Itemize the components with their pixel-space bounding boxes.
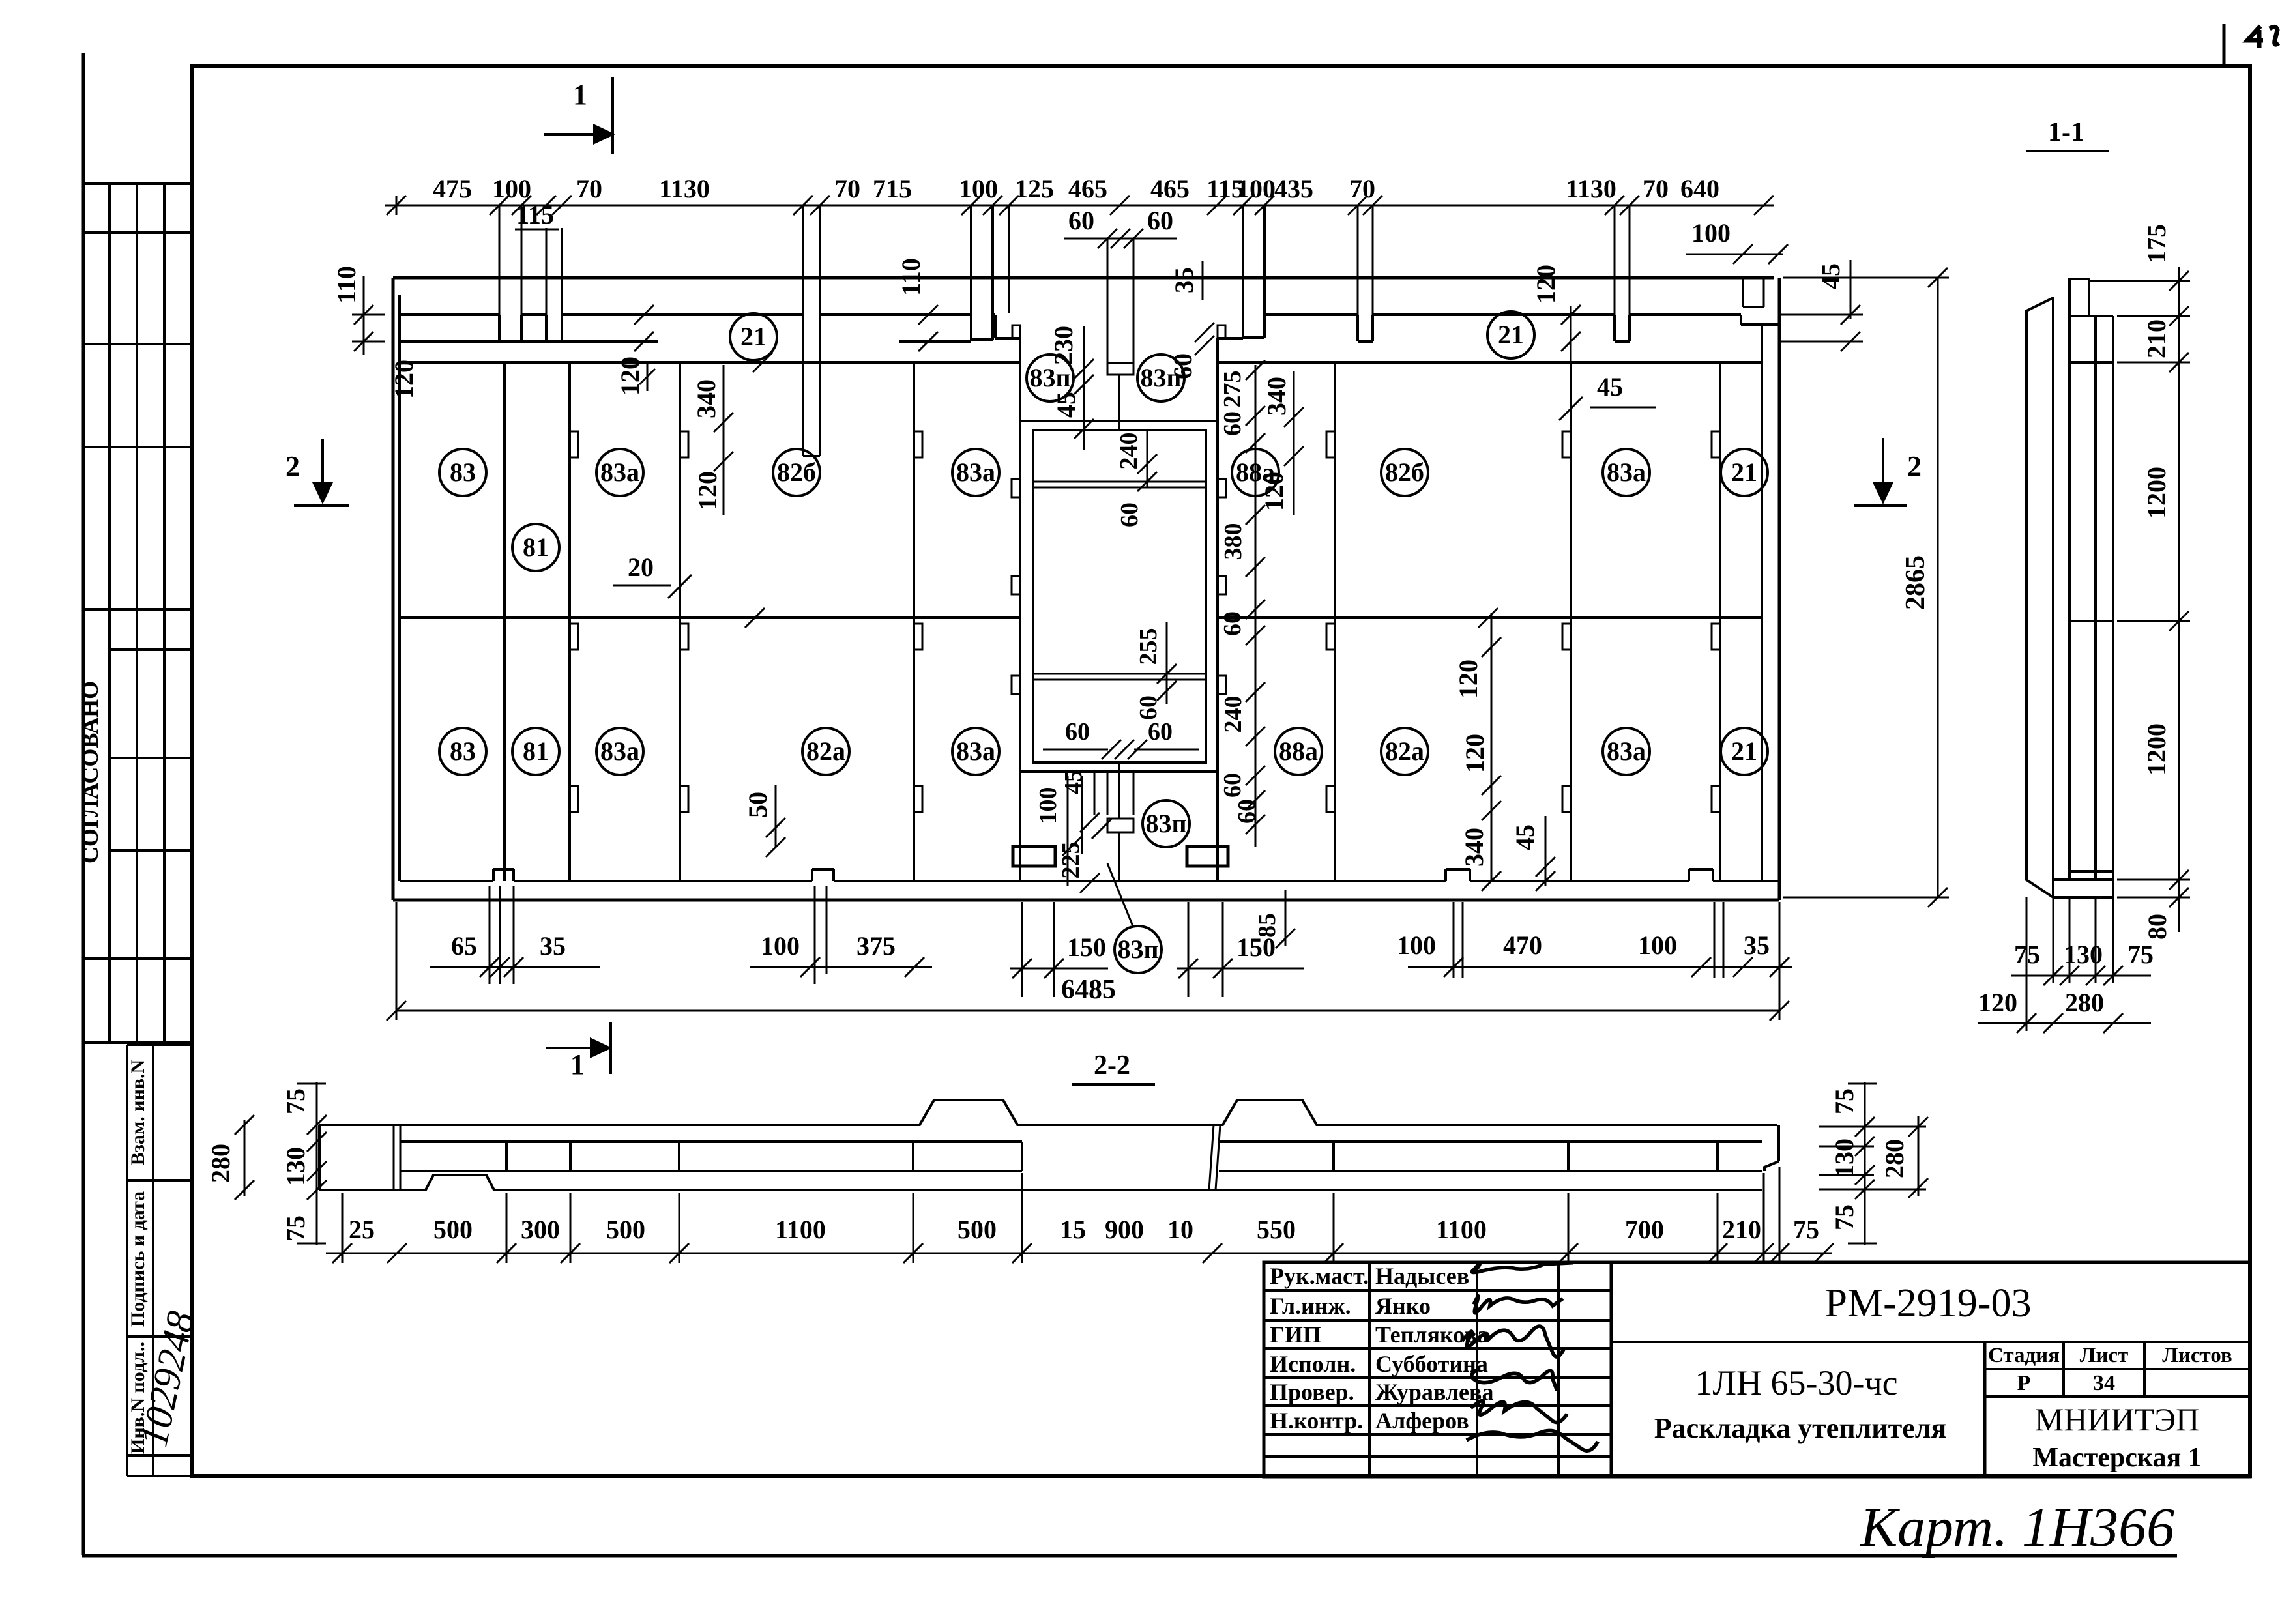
svg-text:Взам. инв.N: Взам. инв.N (127, 1059, 149, 1165)
svg-text:120: 120 (1454, 660, 1483, 699)
bottom dim row 100 375 (750, 966, 932, 968)
bottom dim row left 65 35 (430, 966, 600, 968)
panel joint plate top (1107, 363, 1133, 375)
svg-text:83: 83 (450, 457, 476, 487)
svg-text:Гл.инж.: Гл.инж. (1270, 1293, 1351, 1319)
svg-text:83а: 83а (956, 457, 995, 487)
joint verticals from top dims (499, 205, 501, 315)
svg-text:45: 45 (1816, 263, 1845, 289)
svg-text:45: 45 (1510, 824, 1540, 850)
svg-text:45: 45 (1060, 770, 1087, 794)
svg-text:2-2: 2-2 (1094, 1051, 1130, 1080)
section 2-2 top line with humps (319, 1100, 1777, 1125)
svg-text:83п: 83п (1145, 809, 1186, 838)
svg-text:Подпись и дата: Подпись и дата (127, 1191, 149, 1327)
svg-text:900: 900 (1105, 1215, 1144, 1244)
bottom wall notch (1444, 869, 1447, 881)
svg-text:82б: 82б (1385, 457, 1424, 487)
svg-text:81: 81 (523, 736, 549, 766)
svg-text:340: 340 (1459, 828, 1489, 867)
svg-text:МНИИТЭП: МНИИТЭП (2035, 1401, 2199, 1438)
shaft inner rails bottom (1033, 673, 1206, 675)
svg-text:550: 550 (1257, 1215, 1296, 1244)
panel label circle 83 bottom (439, 728, 486, 775)
panel label circle 82а left (802, 728, 849, 775)
svg-text:21: 21 (1731, 457, 1757, 487)
svg-text:1100: 1100 (775, 1215, 826, 1244)
lift shaft outer top (1020, 420, 1218, 422)
panel label circle 83п bottom centre (1143, 800, 1190, 847)
svg-text:130: 130 (1830, 1138, 1859, 1178)
svg-text:120: 120 (389, 360, 418, 399)
svg-text:475: 475 (433, 174, 472, 203)
panel label circle 82а right (1381, 728, 1428, 775)
svg-text:100: 100 (761, 931, 800, 961)
bottom centre anchor block left (1013, 847, 1055, 866)
section 1-1 outer profile (2026, 298, 2053, 897)
section 2-2 left end (318, 1125, 321, 1190)
top dim extension left (396, 196, 398, 215)
strip notch 2 (545, 315, 548, 341)
svg-text:100: 100 (1691, 218, 1731, 248)
svg-text:75: 75 (281, 1215, 310, 1241)
svg-text:Алферов: Алферов (1375, 1408, 1469, 1434)
svg-text:83а: 83а (1607, 457, 1646, 487)
svg-text:130: 130 (281, 1147, 310, 1186)
section 2-2 band dividers (505, 1142, 508, 1171)
signature Надысев (1462, 1263, 1598, 1451)
sidebar stamp table (82, 184, 85, 1043)
svg-text:150: 150 (1067, 933, 1106, 962)
svg-text:83а: 83а (600, 457, 639, 487)
svg-text:120: 120 (1978, 988, 2017, 1017)
svg-text:465: 465 (1068, 174, 1107, 203)
svg-text:75: 75 (1793, 1215, 1819, 1244)
svg-text:435: 435 (1274, 174, 1313, 203)
signature Субботина (1472, 1369, 1557, 1391)
svg-text:500: 500 (957, 1215, 997, 1244)
svg-text:82б: 82б (777, 457, 816, 487)
dim 2865 (1937, 278, 1939, 897)
signature Алферов (1467, 1430, 1598, 1451)
strip joint slot B (970, 205, 972, 340)
svg-text:82а: 82а (1385, 736, 1424, 766)
section 1-1 inner lines (2068, 316, 2071, 880)
svg-text:1200: 1200 (2142, 723, 2171, 776)
svg-text:280: 280 (2065, 988, 2104, 1017)
panel label circle 83а centre top (952, 449, 999, 496)
bottom wall notch (492, 869, 495, 881)
bottom dim 150 left (1010, 968, 1108, 970)
signature Журавлева (1471, 1400, 1568, 1422)
svg-text:83а: 83а (600, 736, 639, 766)
svg-text:100: 100 (492, 174, 531, 203)
svg-text:210: 210 (2142, 319, 2171, 358)
svg-text:Н.контр.: Н.контр. (1270, 1408, 1363, 1434)
svg-text:700: 700 (1625, 1215, 1664, 1244)
svg-text:Р: Р (2017, 1371, 2031, 1395)
bottom wall notch (811, 869, 813, 881)
svg-text:65: 65 (451, 931, 477, 961)
svg-text:70: 70 (1643, 174, 1669, 203)
svg-text:115: 115 (516, 200, 554, 229)
strip joint slot C (1242, 205, 1244, 338)
signature Янко (1474, 1296, 1563, 1313)
svg-text:340: 340 (1262, 377, 1291, 416)
panel label circle 82б right (1381, 449, 1428, 496)
panel label circle 21 right upper (1721, 449, 1768, 496)
svg-text:Мастерская 1: Мастерская 1 (2032, 1443, 2201, 1473)
svg-text:240: 240 (1220, 696, 1247, 733)
handwritten sheet number 41 (2247, 26, 2263, 48)
leader line to 83п (1107, 863, 1133, 926)
svg-text:1200: 1200 (2142, 467, 2171, 519)
page number tick top right (2223, 24, 2226, 65)
svg-text:1: 1 (573, 79, 587, 111)
svg-text:21: 21 (1731, 736, 1757, 766)
sheet bottom edge (82, 1554, 2177, 1558)
section 2-2 insulation band left half (400, 1140, 1022, 1143)
svg-text:2865: 2865 (1901, 555, 1931, 610)
svg-text:240: 240 (1115, 433, 1143, 470)
svg-text:120: 120 (693, 471, 722, 510)
svg-text:210: 210 (1722, 1215, 1761, 1244)
strip notch 3 (1356, 315, 1359, 341)
title block signature table (1264, 1262, 1611, 1477)
svg-text:60: 60 (1135, 695, 1162, 720)
lift shaft right wall (1216, 338, 1219, 881)
svg-text:21: 21 (1498, 320, 1524, 349)
partition walls left half (503, 362, 506, 881)
panel label circle 21 right lower (1721, 728, 1768, 775)
svg-text:80: 80 (2142, 914, 2172, 940)
section 1-1 top tab (2068, 278, 2071, 316)
plan left edge inner (398, 295, 401, 881)
svg-text:60: 60 (1116, 502, 1143, 527)
panel label circle 83а top (596, 449, 643, 496)
strip joint slot A (802, 205, 804, 456)
shaft right dim line (1255, 365, 1257, 847)
svg-text:120: 120 (1259, 472, 1289, 511)
section 2-2 right dims (1864, 1082, 1866, 1245)
svg-text:280: 280 (206, 1144, 235, 1183)
section 2-2 right end chamfer (1777, 1125, 1780, 1161)
svg-text:1130: 1130 (659, 174, 710, 203)
bottom centre anchor block right (1187, 847, 1228, 866)
svg-text:45: 45 (1051, 392, 1081, 418)
title block main box (1611, 1262, 2250, 1477)
svg-text:640: 640 (1680, 174, 1719, 203)
svg-text:120: 120 (1460, 734, 1489, 773)
panel label circle 83п top left (1027, 355, 1074, 401)
svg-text:175: 175 (2142, 224, 2171, 263)
shaft wall keys (1012, 479, 1020, 497)
svg-text:60: 60 (1219, 411, 1246, 436)
svg-text:500: 500 (433, 1215, 473, 1244)
svg-text:83а: 83а (1607, 736, 1646, 766)
signature Теплякова (1462, 1326, 1564, 1357)
svg-text:1100: 1100 (1436, 1215, 1487, 1244)
svg-text:70: 70 (576, 174, 602, 203)
top strip corner step right (1741, 323, 1779, 326)
svg-text:60: 60 (1147, 206, 1173, 235)
panel label circle 83а right bottom (1603, 728, 1650, 775)
panel label circle 21 top right (1487, 312, 1534, 358)
svg-text:75: 75 (2127, 940, 2154, 969)
svg-text:РМ-2919-03: РМ-2919-03 (1825, 1281, 2032, 1326)
lift shaft outer bottom (1020, 770, 1218, 773)
svg-text:280: 280 (1880, 1139, 1909, 1178)
svg-text:81: 81 (523, 532, 549, 562)
svg-text:60: 60 (1168, 353, 1197, 379)
svg-text:2: 2 (1907, 450, 1922, 482)
panel label circle 83п top right (1137, 355, 1184, 401)
section 2-2 left dims (244, 1120, 246, 1196)
svg-text:Листов: Листов (2162, 1344, 2232, 1367)
svg-text:10: 10 (1167, 1215, 1193, 1244)
sidebar lower table (126, 1045, 128, 1476)
panel label circle 81 top (512, 524, 559, 571)
panel label circle 88а bottom (1275, 728, 1322, 775)
strip bottom lower line left (400, 340, 499, 343)
panel label circle 83а bottom (596, 728, 643, 775)
svg-text:Янко: Янко (1375, 1293, 1431, 1319)
svg-text:125: 125 (1015, 174, 1054, 203)
top centre corner notches (1012, 325, 1020, 338)
svg-text:120: 120 (615, 356, 645, 396)
svg-text:35: 35 (1169, 267, 1199, 293)
svg-text:6485: 6485 (1061, 975, 1116, 1005)
svg-text:1130: 1130 (1566, 174, 1616, 203)
svg-text:45: 45 (1597, 372, 1623, 401)
mid line ticks (745, 608, 765, 628)
svg-text:Раскладка утеплителя: Раскладка утеплителя (1654, 1412, 1947, 1444)
svg-text:60: 60 (1148, 718, 1173, 746)
section 2-2 centre break joints (1209, 1125, 1214, 1190)
section 2-2 panel joint verticals (393, 1125, 395, 1190)
svg-text:75: 75 (281, 1088, 310, 1114)
svg-text:470: 470 (1503, 931, 1542, 960)
panel label circle 83а right top (1603, 449, 1650, 496)
svg-text:340: 340 (692, 379, 721, 418)
strip notch 4 (1613, 315, 1616, 341)
svg-text:83п: 83п (1117, 935, 1158, 964)
partition walls right half (1334, 362, 1336, 881)
section 2-2 insulation band right half (1219, 1140, 1762, 1143)
panel label circle 83 top (439, 449, 486, 496)
svg-text:Журавлева: Журавлева (1375, 1379, 1493, 1405)
plan right edge outer (1778, 278, 1781, 900)
svg-text:60: 60 (1233, 799, 1261, 824)
strip notch 1 (498, 315, 501, 341)
svg-text:2: 2 (285, 450, 300, 482)
svg-text:83а: 83а (956, 736, 995, 766)
plan bottom outer edge (393, 899, 1779, 902)
centre joint verticals (1107, 239, 1109, 363)
section 2-2 bottom line with step (319, 1175, 1762, 1190)
drawing frame border (192, 66, 2250, 1476)
strip centre-left step (995, 337, 1020, 340)
svg-text:20: 20 (628, 553, 654, 582)
svg-text:25: 25 (349, 1215, 375, 1244)
dim 60 60 centre line (1064, 238, 1177, 240)
lift shaft left wall (1019, 338, 1021, 881)
shaft inner rails top (1033, 481, 1206, 483)
svg-text:375: 375 (856, 931, 896, 961)
svg-text:Исполн.: Исполн. (1270, 1351, 1356, 1377)
partition key blocks (570, 431, 578, 457)
svg-text:34: 34 (2093, 1371, 2115, 1395)
sheet outer left border (82, 53, 85, 1555)
svg-text:150: 150 (1236, 933, 1276, 962)
svg-text:ГИП: ГИП (1270, 1322, 1321, 1348)
svg-text:75: 75 (1830, 1204, 1859, 1230)
svg-text:Рук.маст.: Рук.маст. (1270, 1263, 1369, 1289)
svg-text:21: 21 (740, 322, 767, 351)
cells middle line (400, 616, 1020, 619)
cells top line (400, 361, 1020, 364)
strip line ticks (634, 305, 654, 325)
svg-text:83п: 83п (1029, 363, 1070, 392)
svg-text:1: 1 (570, 1049, 585, 1080)
svg-text:Провер.: Провер. (1270, 1379, 1354, 1405)
svg-text:82а: 82а (806, 736, 845, 766)
svg-text:100: 100 (959, 174, 998, 203)
panel label circle 88а top (1232, 449, 1279, 496)
svg-text:255: 255 (1135, 628, 1162, 665)
svg-text:70: 70 (1349, 174, 1375, 203)
svg-text:Стадия: Стадия (1988, 1344, 2060, 1367)
panel label circle 21 top left (730, 313, 777, 360)
svg-text:Карт. 1Н366: Карт. 1Н366 (1859, 1496, 2174, 1558)
svg-text:380: 380 (1220, 523, 1247, 560)
section 1-1 bottom dims (2053, 897, 2054, 983)
svg-text:110: 110 (332, 266, 361, 304)
svg-text:1-1: 1-1 (2048, 117, 2084, 147)
section 2-2 bottom dim chain (326, 1253, 1832, 1254)
panel label circle 81 bottom (512, 728, 559, 775)
overall dim 6485 (396, 1010, 1779, 1012)
plan left edge outer (392, 278, 395, 900)
svg-text:88а: 88а (1279, 736, 1318, 766)
plan outer wall top edge (393, 276, 1774, 280)
plan right edge inner (1761, 325, 1763, 881)
strip centre-right floor (1218, 337, 1243, 340)
panel label circle 82б left (773, 449, 820, 496)
plan cells bottom line (400, 880, 493, 882)
bottom dim 150 right (1177, 968, 1304, 970)
dim 115 underline (515, 229, 559, 231)
svg-text:Лист: Лист (2080, 1344, 2128, 1367)
svg-text:70: 70 (834, 174, 860, 203)
svg-text:75: 75 (1830, 1088, 1859, 1114)
svg-text:35: 35 (1744, 931, 1770, 960)
svg-text:275: 275 (1219, 371, 1246, 408)
panel joint plate bottom (1107, 819, 1133, 832)
top dimension line (385, 205, 1774, 207)
svg-text:465: 465 (1150, 174, 1190, 203)
panel label circle 83п below plan (1115, 926, 1162, 973)
svg-text:60: 60 (1219, 773, 1246, 798)
svg-text:300: 300 (521, 1215, 560, 1244)
svg-text:35: 35 (540, 931, 566, 961)
svg-text:100: 100 (1397, 931, 1436, 960)
section 1-1 right dim chain (2178, 267, 2180, 932)
svg-text:1ЛН 65-30-чс: 1ЛН 65-30-чс (1695, 1363, 1897, 1402)
svg-text:500: 500 (606, 1215, 645, 1244)
svg-text:60: 60 (1068, 206, 1094, 235)
lift shaft inner box (1033, 430, 1206, 762)
svg-text:100: 100 (1034, 787, 1062, 824)
svg-text:Надысев: Надысев (1375, 1263, 1469, 1289)
svg-text:60: 60 (1065, 718, 1090, 746)
panel label circle 83а centre bottom (952, 728, 999, 775)
svg-text:50: 50 (743, 792, 772, 818)
svg-text:230: 230 (1049, 326, 1078, 365)
svg-text:130: 130 (2064, 940, 2103, 969)
svg-text:120: 120 (1531, 265, 1560, 304)
svg-text:15: 15 (1060, 1215, 1086, 1244)
svg-text:100: 100 (1236, 174, 1276, 203)
svg-text:СОГЛАСОВАНО: СОГЛАСОВАНО (77, 681, 103, 863)
top wall strip bottom line (400, 313, 499, 316)
svg-text:83: 83 (450, 736, 476, 766)
svg-text:100: 100 (1638, 931, 1677, 960)
svg-text:60: 60 (1219, 611, 1246, 636)
bottom dim row right 100 470 100 35 (1408, 966, 1792, 968)
section 2-2 extension verticals (342, 1193, 344, 1263)
bottom wall notch (1688, 869, 1690, 881)
svg-text:715: 715 (873, 174, 912, 203)
svg-text:110: 110 (896, 258, 926, 296)
